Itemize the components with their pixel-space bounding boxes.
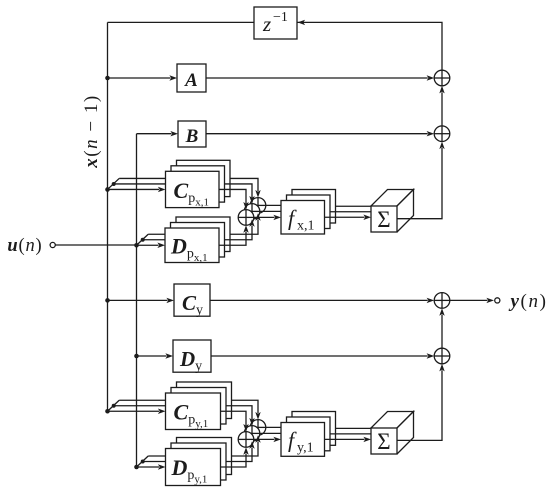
adder cluster (x branch) bbox=[238, 198, 266, 226]
wire: x bus to C_px,1 front bbox=[108, 187, 166, 192]
delay block z^-1 bbox=[254, 7, 297, 39]
wire: u bus to D_y bbox=[137, 353, 174, 358]
svg-text:Σ: Σ bbox=[377, 207, 390, 232]
node on x bus (C_y row) bbox=[105, 298, 110, 303]
node on x bus (A row) bbox=[105, 76, 110, 81]
adder (D_y row) bbox=[434, 348, 450, 364]
input terminal u(n) bbox=[7, 236, 55, 256]
wire: D_y-row adder up to C_y-row adder bbox=[439, 308, 444, 348]
wire: fan bundle into C_py,1 sheets (behind) bbox=[108, 400, 178, 411]
wire: C_py front output to front adder bbox=[221, 411, 247, 425]
svg-text:x(n − 1): x(n − 1) bbox=[81, 94, 102, 168]
wire: u bus to D_py,1 front bbox=[137, 464, 166, 469]
wire: mid adder to f_y mid sheet bbox=[260, 432, 287, 434]
summation cube Sigma (y branch) bbox=[371, 412, 414, 455]
wire: B output to adder bbox=[206, 131, 434, 136]
node on fan diagonal (C_px) bbox=[112, 182, 116, 186]
block stack D_py,1 bbox=[166, 438, 232, 486]
wire: f_y outputs to Sigma cube bbox=[325, 428, 372, 442]
adder cluster (y branch) bbox=[238, 420, 266, 448]
block C_y bbox=[174, 284, 210, 318]
wire: x bus to C_y bbox=[108, 298, 175, 303]
svg-text:Σ: Σ bbox=[377, 429, 390, 454]
svg-text:A: A bbox=[184, 70, 198, 91]
wire: C_y output to adder bbox=[210, 298, 434, 303]
wire: D_py mid output up to mid adder bbox=[226, 441, 255, 461]
wire: x(n-1) vertical bus bbox=[107, 22, 109, 411]
wire: D_px mid output up to mid adder bbox=[225, 219, 255, 240]
adder (B row) bbox=[434, 126, 450, 142]
wire: C_py back output to back adder bbox=[232, 400, 259, 413]
wire: u vertical bus bbox=[136, 134, 138, 467]
wire: Sigma y output up to D_y-row adder bbox=[397, 364, 445, 441]
wire: D_py front output up to front adder bbox=[221, 447, 249, 467]
arrows into y adder tops bbox=[243, 412, 260, 432]
svg-text:x,1: x,1 bbox=[297, 219, 315, 234]
wire: D_px back output up to back adder bbox=[230, 213, 261, 234]
wire: feedback from state adder up and left to z^-1 bbox=[298, 20, 443, 70]
node on u bus (D_px row / u(n) junction) bbox=[134, 243, 139, 248]
wire: C_py mid output to mid adder bbox=[226, 406, 252, 419]
svg-text:B: B bbox=[185, 126, 199, 147]
arrows into x adder tops bbox=[243, 190, 260, 210]
summation cube Sigma (x branch) bbox=[371, 190, 414, 233]
wire: x bus to C_py,1 front bbox=[108, 409, 166, 414]
wire: u bus to D_px,1 front bbox=[137, 243, 166, 248]
node on u bus (D_y row) bbox=[134, 354, 139, 359]
node on x bus (C_px row) bbox=[105, 187, 110, 192]
block D_y bbox=[173, 340, 211, 374]
wire: Sigma x output up to B-row adder bbox=[397, 142, 445, 219]
wire: mid adder to f_x mid sheet bbox=[260, 210, 287, 212]
block stack f_x,1 bbox=[281, 190, 336, 235]
svg-text:y,1: y,1 bbox=[297, 441, 314, 456]
svg-text:−1: −1 bbox=[273, 10, 288, 25]
wire: A output to adder bbox=[206, 75, 434, 80]
label x(n-1) bbox=[81, 94, 102, 168]
output terminal y(n) bbox=[450, 291, 548, 312]
node on fan diagonal (D_px) bbox=[141, 238, 145, 242]
block stack C_px,1 bbox=[166, 160, 231, 208]
block stack D_px,1 bbox=[165, 217, 230, 264]
adder (A row) bbox=[434, 70, 450, 86]
wire: D_py back output up to back adder bbox=[232, 435, 261, 456]
node on fan diagonal (C_py) bbox=[112, 404, 116, 408]
wire: D_px front output up to front adder bbox=[219, 225, 249, 245]
wire: f_x outputs to Sigma cube bbox=[325, 206, 372, 220]
wire: front adder to f_x front bbox=[254, 215, 281, 220]
wire: fan bundle into D_px,1 sheets (behind) bbox=[137, 234, 178, 245]
wire: front adder to f_y front bbox=[254, 437, 281, 442]
svg-text:z: z bbox=[262, 12, 271, 36]
node on x bus (C_py row) bbox=[105, 409, 110, 414]
block B bbox=[178, 121, 206, 147]
block stack C_py,1 bbox=[166, 382, 232, 430]
wire: back adder to f_y back sheet bbox=[266, 426, 292, 428]
adder (C_y row) bbox=[434, 293, 450, 309]
wire: C_px front output to front adder bbox=[219, 189, 246, 203]
wire: fan bundle into C_px,1 sheets (behind) bbox=[108, 178, 178, 189]
node on u bus (D_py row) bbox=[134, 465, 139, 470]
wire: back adder to f_x back sheet bbox=[266, 204, 292, 206]
block stack f_y,1 bbox=[281, 412, 336, 457]
wire: D_y output to adder bbox=[211, 353, 434, 358]
svg-text:y(n): y(n) bbox=[509, 291, 548, 312]
wire: B-row adder to A-row adder bbox=[439, 86, 444, 126]
wire: fan bundle into D_py,1 sheets (behind) bbox=[137, 456, 178, 467]
block A bbox=[177, 64, 206, 92]
svg-text:u(n): u(n) bbox=[7, 236, 42, 256]
wire: x bus to A bbox=[108, 75, 178, 80]
wire: u bus to B bbox=[137, 131, 179, 136]
wire: z^-1 output to x(n-1) bus corner bbox=[108, 21, 255, 23]
wire: u(n) to u bus bbox=[55, 244, 136, 246]
wire: C_px back output to back adder bbox=[230, 178, 258, 191]
wire: C_px mid output to mid adder bbox=[225, 184, 253, 197]
node on fan diagonal (D_py) bbox=[141, 460, 145, 464]
